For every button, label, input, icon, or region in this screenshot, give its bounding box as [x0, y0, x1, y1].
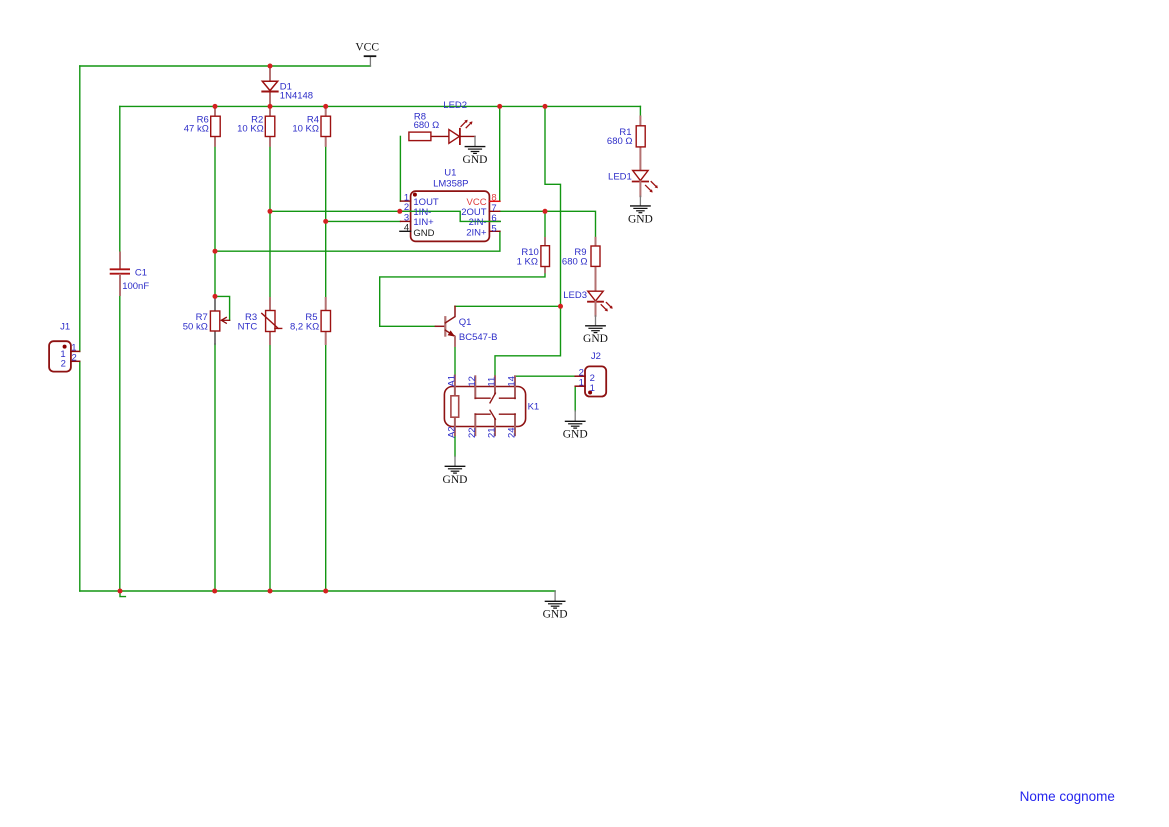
svg-text:8,2 KΩ: 8,2 KΩ: [290, 321, 319, 332]
wire R3 to bottom rail: [269, 344, 271, 591]
node R7 wiper tap: [213, 294, 218, 299]
node R6 2IN+: [213, 249, 218, 254]
gnd under LED1: [631, 196, 650, 213]
wire R4 column: [325, 146, 327, 299]
wire C1 column above: [119, 106, 121, 252]
node bottom rail R3: [268, 589, 273, 594]
resistor R10: [541, 238, 550, 272]
svg-text:12: 12: [467, 376, 478, 387]
wire R2 column: [269, 146, 271, 299]
gnd under LED3: [586, 316, 605, 333]
svg-text:4: 4: [404, 223, 409, 234]
wire C1 column below: [119, 295, 121, 591]
wire Q1 collector net: [455, 305, 561, 307]
wire R5 to bottom rail: [325, 344, 327, 591]
node rail2 pin8 drop: [497, 104, 502, 109]
op-amp U1 box: [400, 191, 500, 241]
svg-text:10 KΩ: 10 KΩ: [292, 124, 319, 135]
svg-text:K1: K1: [528, 402, 540, 413]
resistor R8 horizontal: [409, 132, 449, 141]
svg-text:GND: GND: [463, 154, 488, 166]
svg-text:11: 11: [487, 377, 498, 387]
svg-text:1 KΩ: 1 KΩ: [517, 257, 538, 268]
svg-text:22: 22: [467, 427, 478, 438]
wire second rail y=106: [120, 105, 641, 107]
svg-text:Nome cognome: Nome cognome: [1020, 789, 1115, 804]
wire pin2 to pin6 through U1: [400, 211, 501, 221]
svg-text:2IN+: 2IN+: [466, 228, 487, 239]
wire rail2 corner down to R1: [639, 106, 641, 116]
node collector junction: [558, 304, 563, 309]
node bottom rail C1: [118, 589, 123, 594]
svg-text:GND: GND: [443, 474, 468, 486]
svg-text:680 Ω: 680 Ω: [607, 136, 633, 147]
svg-text:C1: C1: [135, 267, 147, 278]
svg-text:LED2: LED2: [443, 100, 467, 111]
wire bottom hook at C1 column: [120, 591, 125, 597]
svg-text:J2: J2: [591, 351, 601, 362]
svg-text:1N4148: 1N4148: [280, 91, 313, 102]
svg-text:1IN+: 1IN+: [413, 217, 434, 228]
svg-text:VCC: VCC: [355, 42, 379, 54]
svg-text:2: 2: [61, 358, 66, 369]
svg-text:47 kΩ: 47 kΩ: [184, 124, 209, 135]
vcc symbol: [365, 56, 376, 66]
svg-text:1: 1: [579, 378, 584, 389]
svg-text:GND: GND: [413, 228, 434, 239]
wire R10 bottom to Q1 base: [380, 272, 545, 326]
connector J1: [49, 341, 80, 371]
node D1 top: [268, 64, 273, 69]
node bottom rail R7: [212, 589, 217, 594]
svg-text:10 KΩ: 10 KΩ: [237, 124, 264, 135]
wire J2 pin1 down to GND: [574, 386, 576, 411]
svg-text:6: 6: [491, 213, 496, 224]
node 2OUT R10: [543, 209, 548, 214]
wire LED2 rail to U1 pin8: [499, 106, 501, 201]
wire left vertical upper (to J1 pin1): [79, 66, 81, 351]
svg-text:21: 21: [487, 427, 498, 438]
node rail2 jog drop: [543, 104, 548, 109]
resistor R4: [321, 107, 331, 146]
relay K1: [444, 376, 525, 436]
resistor R5: [321, 298, 330, 344]
potentiometer R7: [210, 296, 229, 344]
svg-text:2IN-: 2IN-: [469, 217, 487, 228]
svg-text:8: 8: [491, 192, 496, 203]
led LED2: [449, 120, 475, 144]
wire LED2 rail jog down to collector junction: [545, 106, 561, 306]
svg-text:LM358P: LM358P: [433, 179, 468, 190]
node R4 1IN+: [323, 219, 328, 224]
wire R7 to bottom rail: [214, 344, 216, 591]
resistor R6: [211, 107, 221, 146]
svg-text:50 kΩ: 50 kΩ: [183, 321, 208, 332]
node rail2 R6: [213, 104, 218, 109]
svg-text:LED1: LED1: [608, 171, 632, 182]
wire K1 A2 down to GND: [454, 435, 456, 456]
led LED3: [588, 291, 613, 316]
svg-text:GND: GND: [583, 333, 608, 345]
wire R8 left to U1 pin1: [399, 136, 401, 201]
transistor Q1: [435, 306, 455, 346]
svg-text:J1: J1: [60, 322, 70, 333]
svg-text:GND: GND: [543, 608, 568, 620]
wire K1 pin14 to J2 pin2: [515, 375, 575, 377]
svg-text:A1: A1: [446, 375, 457, 387]
svg-text:U1: U1: [444, 167, 456, 178]
JUNCTION DOTS: [118, 64, 564, 594]
node rail2 R2: [268, 104, 273, 109]
svg-text:680 Ω: 680 Ω: [562, 257, 588, 268]
gnd under J2: [566, 411, 585, 428]
wire pin2 net (R2 to U1 1IN-): [270, 210, 400, 212]
wire 2OUT junction down to R10: [544, 211, 546, 238]
node rail2 R4: [323, 104, 328, 109]
gnd under K1 A2: [445, 456, 464, 473]
svg-text:GND: GND: [563, 429, 588, 441]
resistor R1: [636, 117, 645, 171]
svg-text:A2: A2: [446, 426, 457, 438]
gnd under LED2: [465, 136, 484, 153]
wire bottom rail: [80, 590, 555, 592]
wire pin3 net (R4 to U1 1IN+): [326, 220, 401, 222]
svg-text:Q1: Q1: [459, 317, 472, 328]
node R2 1IN-: [268, 209, 273, 214]
svg-text:2: 2: [72, 352, 77, 363]
svg-text:680 Ω: 680 Ω: [414, 120, 440, 131]
diode D1: [262, 67, 277, 107]
connector J2: [575, 366, 606, 396]
svg-text:LED3: LED3: [563, 290, 587, 301]
svg-text:14: 14: [507, 376, 518, 387]
wire collector junction down to K1 pin 11: [495, 306, 561, 376]
svg-text:1: 1: [590, 383, 595, 394]
svg-text:24: 24: [507, 427, 518, 438]
wire left vertical lower (J1 pin2 to bottom rail): [79, 361, 81, 591]
led LED1: [633, 171, 658, 197]
gnd bottom rail: [545, 591, 564, 608]
wire 2OUT net to R9: [500, 211, 596, 238]
node bottom rail R5: [323, 589, 328, 594]
svg-text:BC547-B: BC547-B: [459, 332, 498, 343]
svg-text:100nF: 100nF: [122, 281, 149, 292]
svg-text:GND: GND: [628, 213, 653, 225]
thermistor R3: [262, 298, 282, 344]
wire Q1 emitter to K1 A1: [454, 346, 456, 376]
svg-text:5: 5: [491, 223, 496, 234]
resistor R9: [591, 238, 600, 291]
node U1 pin2: [397, 209, 402, 214]
svg-text:NTC: NTC: [238, 321, 258, 332]
capacitor C1: [111, 253, 130, 296]
wire pin5 net (R6 junction to U1 2IN+): [215, 231, 500, 251]
wire top rail VCC: [80, 65, 371, 67]
resistor R2: [265, 107, 275, 146]
wire R6 column: [214, 146, 216, 299]
